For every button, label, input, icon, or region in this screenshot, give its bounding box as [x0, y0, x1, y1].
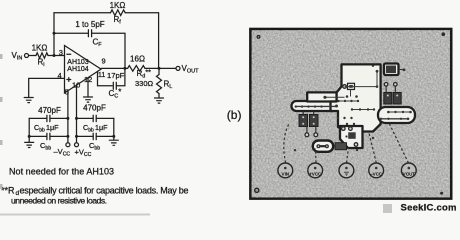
wire pin 11 stub: [98, 71, 113, 85]
wire right 470pF row right: [96, 117, 114, 119]
svg-text:470pF: 470pF: [83, 104, 106, 113]
svg-text:VIN: VIN: [12, 51, 23, 62]
connector pad GND: [339, 163, 354, 178]
capacitor CF: [88, 30, 91, 37]
svg-text:Cbb: Cbb: [89, 141, 100, 152]
connector pad VIN: [278, 163, 293, 178]
component right cluster left: [384, 93, 392, 105]
svg-text:1KΩ: 1KΩ: [32, 44, 48, 53]
node CF tap: [53, 32, 56, 35]
svg-text:SeekIC.com: SeekIC.com: [401, 203, 457, 214]
svg-text:1KΩ: 1KΩ: [110, 1, 126, 10]
svg-text:Cbb: Cbb: [40, 141, 51, 152]
node left bus: [28, 135, 31, 138]
wire Cc to output node: [116, 68, 125, 85]
svg-text:Rd**: Rd**: [137, 69, 152, 80]
screw top-left: [257, 35, 261, 39]
svg-text:330Ω: 330Ω: [135, 79, 154, 88]
component bottom tab dark: [348, 132, 356, 139]
component right cluster right: [393, 93, 401, 105]
capacitor 470pF right: [93, 115, 96, 121]
wire top rail right + down to output: [125, 13, 158, 69]
wire top rail left: [54, 12, 111, 14]
PCB trace main plane: [331, 64, 381, 131]
svg-text:Not needed for the AH103: Not needed for the AH103: [9, 167, 114, 177]
node output junction: [158, 67, 161, 70]
svg-text:5: 5: [65, 87, 69, 96]
svg-text:+V CC: +V CC: [309, 172, 321, 177]
node right bus: [112, 135, 115, 138]
screw top-right: [442, 32, 446, 36]
svg-text:4: 4: [58, 71, 62, 80]
wire Rd to VOUT: [145, 67, 176, 69]
capacitor 470pF left: [47, 115, 50, 121]
ground right bus: [109, 140, 118, 145]
svg-text:AH103: AH103: [67, 59, 89, 66]
dashed leads pads to traces: [284, 123, 409, 163]
wire left 470pF row right: [50, 117, 68, 119]
screw bottom-left: [255, 188, 259, 192]
svg-text:Cbb1μF: Cbb1μF: [34, 123, 59, 134]
minus sign inverting input: [67, 53, 71, 55]
PCB trace bottom tab: [340, 126, 363, 148]
ground left bus: [25, 142, 34, 147]
component left pair left: [299, 115, 308, 127]
plus sign non-inverting input: [67, 78, 71, 82]
PCB pads and holes: [294, 65, 412, 152]
svg-text:3: 3: [59, 48, 63, 57]
wire left Cbb row: [29, 135, 47, 137]
svg-text:10: 10: [72, 80, 80, 89]
wire right Cbb row right: [96, 135, 114, 137]
resistor Rf 1KΩ: [111, 10, 126, 16]
PCB trace capsule: [313, 141, 333, 152]
wire right ground bus: [113, 118, 115, 140]
svg-text:**R: **R: [1, 186, 15, 196]
ring pads below left pair: [305, 133, 309, 137]
wire pin 12 to ground: [87, 78, 89, 97]
svg-text:1 to 5pF: 1 to 5pF: [75, 20, 104, 29]
terminal VOUT: [176, 66, 180, 70]
node pin10 rail / 470pF row: [75, 117, 78, 120]
wire left ground bus: [28, 118, 30, 142]
svg-text:especially critical for capaci: especially critical for capacitive loads…: [20, 186, 189, 196]
svg-text:Cbb1μF: Cbb1μF: [83, 123, 108, 134]
terminal +VCC: [75, 143, 79, 147]
svg-text:(b): (b): [227, 108, 242, 122]
wire CF rail left: [54, 32, 88, 34]
resistor Ri 1KΩ: [36, 53, 48, 58]
svg-text:V OUT: V OUT: [403, 172, 415, 177]
svg-text:–V CC: –V CC: [370, 172, 382, 177]
scan artifacts left edge: [0, 54, 392, 216]
svg-text:unneeded on resistive loads.: unneeded on resistive loads.: [11, 196, 107, 206]
component left pair right: [310, 115, 319, 127]
component central small box: [348, 83, 355, 89]
screw bottom-right: [440, 192, 443, 195]
capacitor Cc 17pF: [113, 82, 116, 89]
svg-text:VOUT: VOUT: [182, 64, 200, 75]
component capsule jumper: [318, 145, 327, 147]
connector pad -VCC: [369, 163, 384, 178]
svg-text:–VCC: –VCC: [54, 147, 71, 158]
wires left pair to pads: [303, 111, 316, 133]
svg-text:17pF: 17pF: [107, 71, 125, 80]
op-amp U1 AH103/AH104: [65, 46, 102, 94]
wire CF rail right + down to pin 9 node: [92, 33, 125, 68]
node pin10 rail / Cbb row: [75, 135, 78, 138]
node pin5 rail / Cbb row: [66, 135, 69, 138]
ground RL: [155, 98, 164, 103]
svg-text:RL: RL: [164, 79, 173, 90]
wire left Cbb row right: [50, 135, 68, 137]
capacitor Cbb left: [47, 133, 50, 139]
resistor Rd 16Ω: [128, 66, 145, 72]
connector pad +VCC: [308, 163, 323, 178]
svg-text:11: 11: [98, 72, 105, 79]
svg-text:Ri: Ri: [38, 58, 45, 69]
svg-text:16Ω: 16Ω: [130, 55, 145, 64]
wire RL bottom: [158, 94, 160, 98]
PCB trace left arm: [292, 101, 339, 111]
wire right Cbb row: [77, 135, 94, 137]
wire pin 5 supply rail: [67, 91, 69, 143]
component right of capsule: [335, 143, 347, 150]
PCB photo board: [250, 29, 451, 199]
svg-text:V IN: V IN: [282, 172, 289, 177]
svg-text:470pF: 470pF: [38, 106, 61, 115]
PCB trace top-right pad box: [384, 64, 399, 76]
terminal VIN: [25, 54, 29, 58]
wire Ri to pin 3: [48, 55, 65, 57]
ground pin4: [24, 98, 33, 103]
wire RL top: [158, 68, 160, 74]
PCB trace upper-left strip: [307, 92, 336, 101]
svg-text:CC*: CC*: [109, 87, 122, 99]
wire pin 10 supply rail: [76, 85, 78, 143]
capacitor Cbb right: [93, 133, 96, 139]
svg-text:AH104: AH104: [67, 66, 89, 73]
svg-text:12: 12: [84, 75, 92, 84]
PCB inner traces: [296, 71, 411, 119]
wire right 470pF row: [77, 117, 94, 119]
component top-right R: [386, 66, 396, 74]
wire pin 4 to ground: [29, 78, 65, 97]
wire input to Ri: [29, 55, 36, 57]
svg-text:Rf: Rf: [114, 15, 122, 26]
wire output pin 9: [101, 67, 128, 69]
svg-text:9: 9: [102, 57, 106, 66]
wire feedback vertical: [53, 13, 55, 56]
svg-text:CF: CF: [93, 38, 103, 49]
node Cc/CF junction: [123, 67, 126, 70]
pads on bottom tab: [342, 127, 346, 131]
resistor RL 330Ω: [157, 75, 162, 94]
pads above right cluster: [386, 86, 395, 93]
PCB trace right arm: [378, 107, 415, 123]
terminal -VCC: [66, 143, 70, 147]
node pin5 rail / 470pF row: [66, 117, 69, 120]
connector pad VOUT: [401, 163, 416, 178]
node A junction on input: [53, 54, 56, 57]
wire left 470pF row: [29, 117, 47, 119]
ground pin12: [84, 97, 93, 102]
